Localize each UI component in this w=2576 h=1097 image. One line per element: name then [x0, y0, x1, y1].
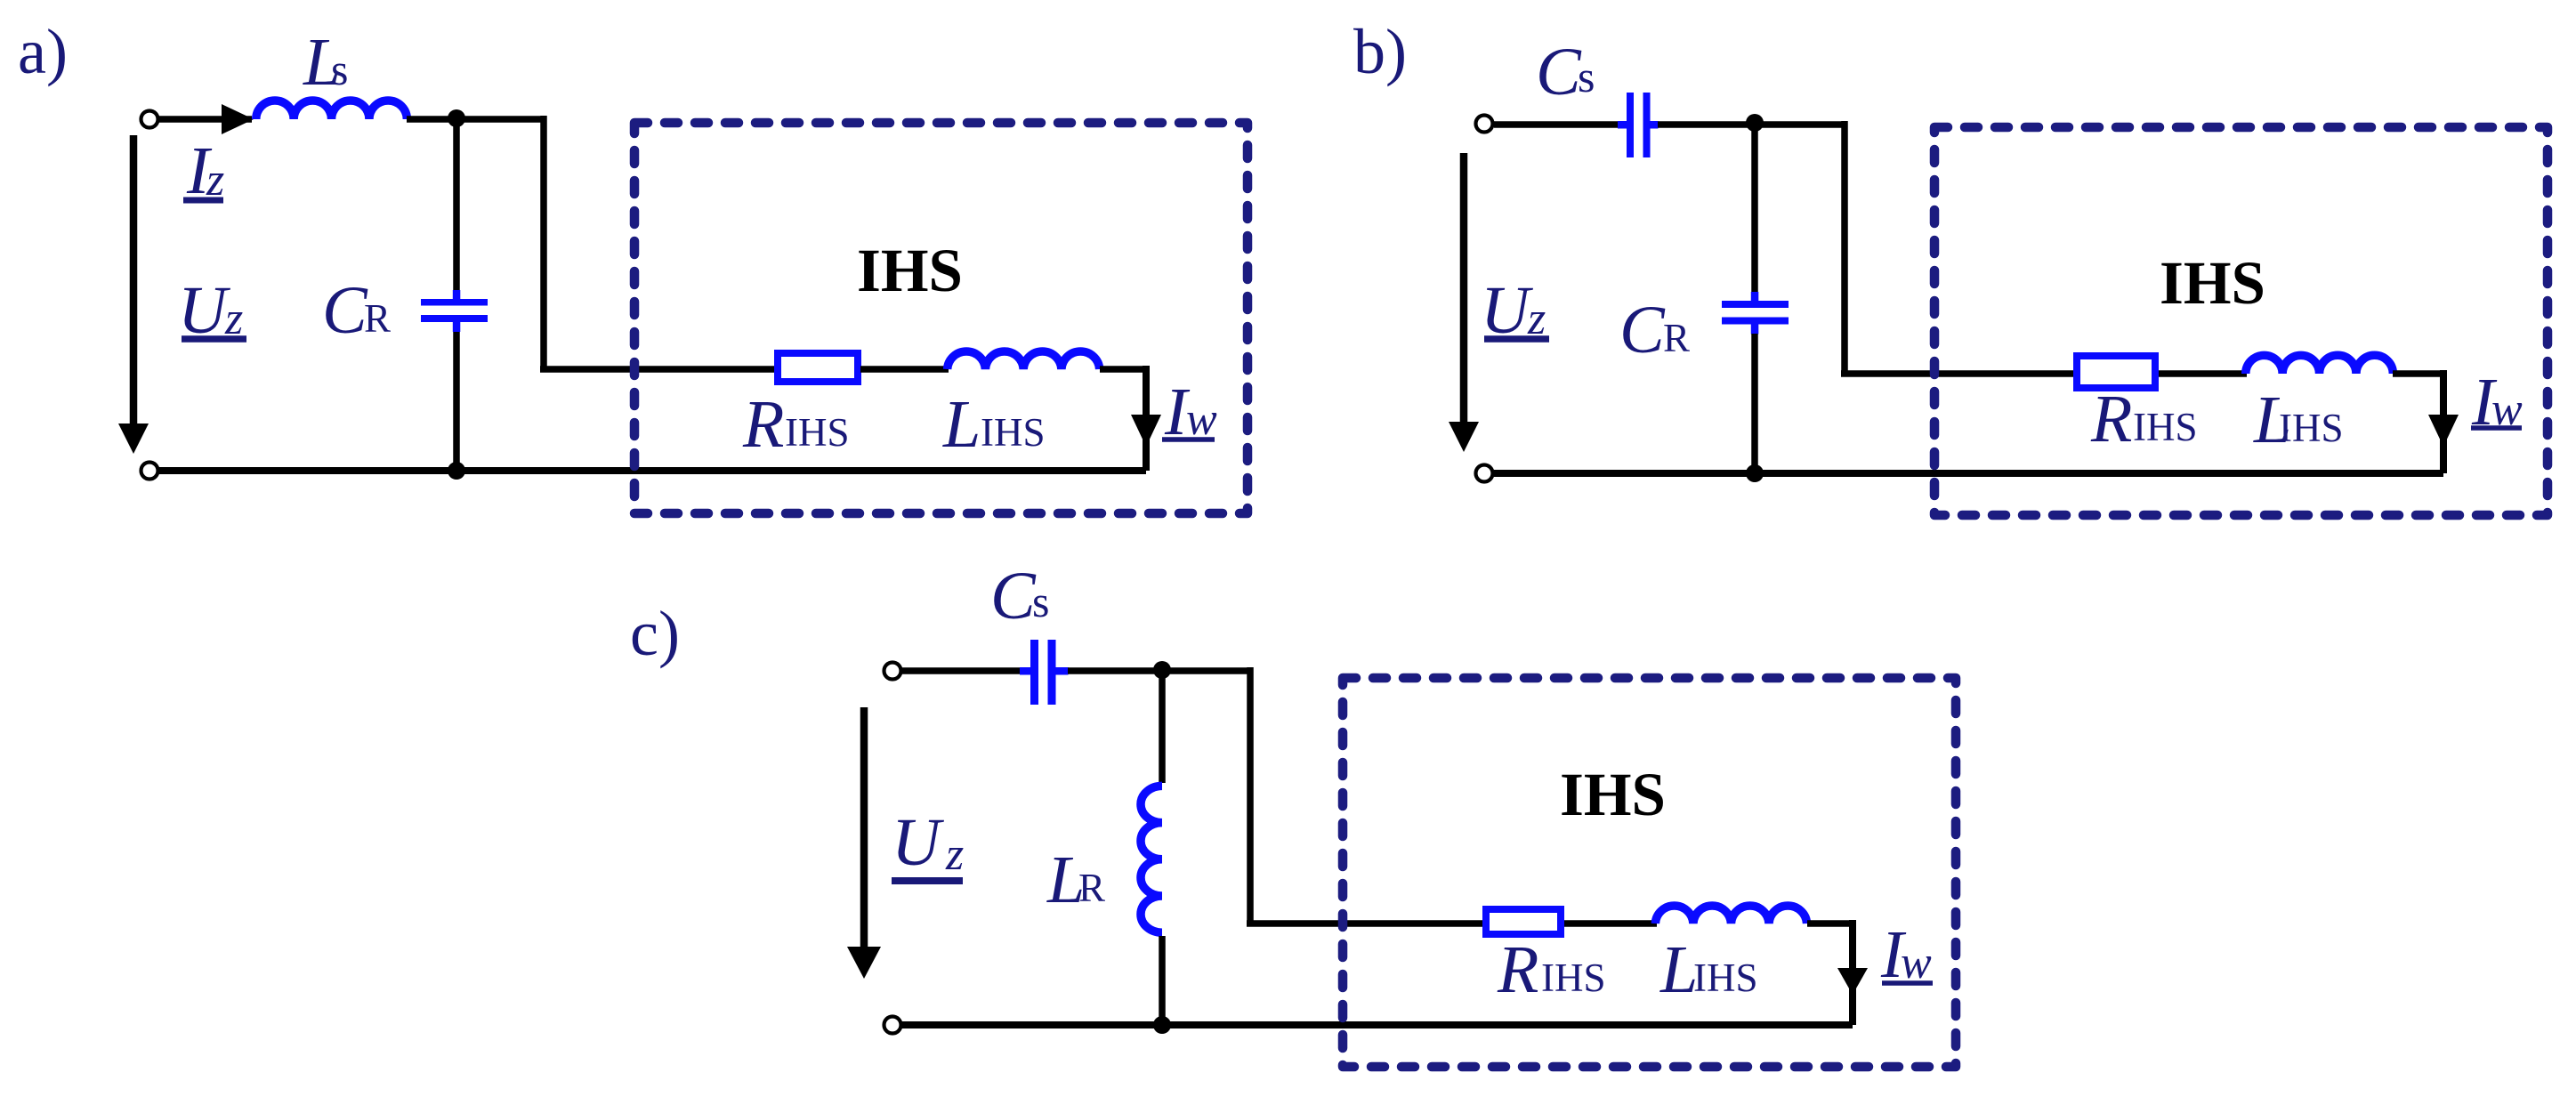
IHS title b	[2160, 249, 2265, 317]
wire down to CR b	[1751, 125, 1758, 294]
IHS box c (dashed)	[1343, 678, 1956, 1067]
terminal bottom-left c	[884, 1017, 901, 1034]
inductor LR c (vertical)	[1141, 786, 1162, 932]
wire from Ls to corner	[407, 116, 544, 123]
wire LIHS to corner a	[1100, 366, 1146, 471]
inductor LIHS b	[2246, 355, 2394, 374]
terminal top-left c	[884, 663, 901, 680]
capacitor Cs b	[1618, 93, 1659, 157]
svg-text:L: L	[942, 387, 981, 462]
current arrow Iw c	[1837, 968, 1868, 995]
resistor RIHS b	[2077, 356, 2155, 388]
wire bottom	[159, 467, 1146, 474]
svg-text:IHS: IHS	[1560, 761, 1666, 828]
wire top from terminal to Ls	[159, 116, 252, 123]
svg-text:IHS: IHS	[1693, 956, 1758, 1000]
terminal bottom-left b	[1476, 465, 1493, 482]
wire RIHS to LIHS b	[2159, 370, 2247, 377]
label CR	[322, 273, 391, 348]
wire LIHS to corner c	[1807, 920, 1853, 1025]
wire RIHS to LIHS c	[1564, 920, 1657, 927]
label c)	[630, 598, 680, 669]
current arrow Iw a	[1131, 415, 1161, 447]
label Cs b	[1536, 35, 1595, 109]
node junction bottom b (dot)	[1746, 464, 1764, 482]
label RIHS a	[742, 387, 850, 462]
inductor LIHS a	[948, 351, 1100, 369]
inductor LIHS c	[1655, 906, 1806, 924]
svg-text:U: U	[892, 805, 944, 880]
node junction top c (dot)	[1153, 661, 1171, 679]
svg-text:IHS: IHS	[1541, 956, 1606, 1000]
terminal top-left b	[1476, 116, 1493, 133]
label Iw a	[1162, 375, 1217, 449]
label Cs c	[990, 559, 1049, 633]
voltage arrow Uz	[118, 135, 149, 454]
svg-text:R: R	[1497, 932, 1538, 1007]
label LR c	[1046, 843, 1105, 917]
wire from CR down to bottom	[453, 332, 460, 471]
label b)	[1353, 16, 1407, 87]
svg-text:C: C	[1536, 35, 1582, 109]
label RIHS c	[1497, 932, 1606, 1007]
svg-text:s: s	[1032, 577, 1049, 626]
label Uz	[178, 273, 246, 348]
svg-text:L: L	[1659, 932, 1698, 1007]
wire corner down to IHS level b	[1841, 121, 2077, 374]
capacitor CR b	[1722, 292, 1789, 335]
svg-text:C: C	[990, 559, 1037, 633]
label Iw b	[2471, 365, 2523, 440]
wire terminal to Cs	[1494, 121, 1619, 128]
terminal top-left (open circle)	[141, 111, 158, 128]
wire LIHS to corner b	[2393, 370, 2443, 473]
IHS box a (dashed)	[634, 123, 1248, 513]
svg-text:R: R	[2090, 382, 2132, 456]
capacitor CR	[421, 290, 488, 332]
voltage arrow Uz b	[1449, 153, 1479, 452]
svg-text:IHS: IHS	[2279, 406, 2344, 450]
svg-text:R: R	[1078, 866, 1105, 910]
label RIHS b	[2090, 382, 2198, 456]
svg-text:IHS: IHS	[981, 410, 1046, 455]
label LIHS b	[2253, 383, 2344, 457]
label CR b	[1619, 293, 1690, 367]
wire down to LR c	[1159, 671, 1166, 783]
svg-text:IHS: IHS	[785, 410, 850, 455]
resistor RIHS c	[1486, 909, 1561, 934]
label LIHS a	[942, 387, 1046, 462]
wire from CR b down	[1751, 334, 1758, 473]
wire bottom b	[1494, 470, 2443, 477]
svg-text:z: z	[945, 829, 964, 880]
label Iz	[183, 133, 224, 208]
svg-text:C: C	[322, 273, 368, 348]
label Uz c	[892, 805, 964, 881]
label a)	[18, 16, 68, 87]
inductor Ls	[256, 101, 408, 119]
node junction top (dot)	[448, 109, 465, 127]
label Uz b	[1481, 273, 1549, 348]
svg-text:IHS: IHS	[2160, 249, 2265, 317]
svg-text:IHS: IHS	[857, 237, 963, 304]
wire terminal to Cs c	[902, 667, 1022, 674]
terminal bottom-left (open circle)	[141, 463, 158, 480]
IHS title a	[857, 237, 963, 304]
capacitor Cs c	[1020, 640, 1069, 705]
node junction bottom (dot)	[448, 462, 465, 480]
svg-text:R: R	[742, 387, 784, 462]
svg-text:C: C	[1619, 293, 1666, 367]
wire Cs to corner b	[1658, 121, 1845, 128]
svg-text:b): b)	[1353, 16, 1407, 87]
svg-text:R: R	[1663, 316, 1690, 360]
node junction bottom c (dot)	[1153, 1016, 1171, 1034]
IHS title c	[1560, 761, 1666, 828]
svg-text:R: R	[364, 296, 391, 341]
svg-text:a): a)	[18, 16, 68, 87]
svg-text:c): c)	[630, 598, 680, 669]
wire corner down to IHS level c	[1247, 667, 1486, 924]
svg-text:s: s	[1578, 52, 1595, 101]
current arrow Iw b	[2428, 415, 2459, 447]
label Iw c	[1880, 917, 1933, 992]
svg-text:s: s	[331, 44, 348, 94]
label Ls	[303, 25, 348, 100]
wire corner down to IHS level	[540, 116, 779, 369]
wire bottom c	[902, 1021, 1853, 1028]
resistor RIHS a	[778, 353, 858, 382]
wire RIHS to LIHS a	[860, 366, 949, 373]
wire down to CR	[453, 119, 460, 293]
node junction top b (dot)	[1746, 114, 1764, 132]
voltage arrow Uz c	[847, 707, 881, 979]
current arrow Iz head	[222, 104, 254, 134]
wire Cs to corner c	[1068, 667, 1250, 674]
IHS box b (dashed)	[1934, 127, 2548, 515]
label LIHS c	[1659, 932, 1758, 1007]
wire LR to bottom c	[1159, 936, 1166, 1025]
svg-text:IHS: IHS	[2133, 405, 2198, 449]
